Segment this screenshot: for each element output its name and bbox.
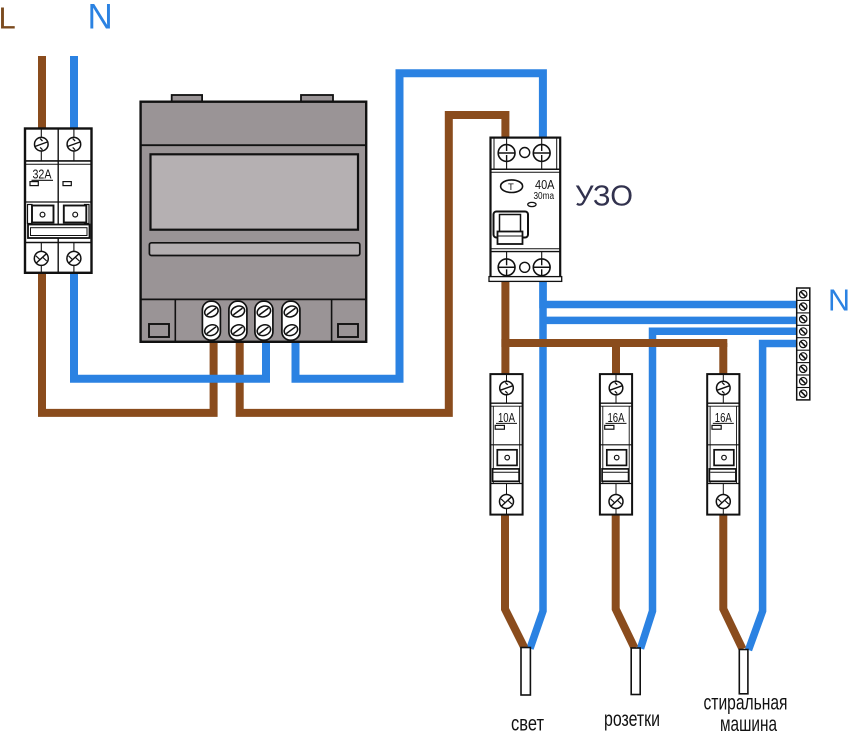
svg-text:машина: машина	[720, 713, 777, 735]
breaker SF2 16A	[600, 374, 632, 514]
wire L input brown	[38, 56, 46, 132]
breaker SF1 10A	[490, 374, 522, 514]
svg-text:30ma: 30ma	[534, 191, 555, 202]
breaker QF1 32A two-pole	[25, 129, 92, 273]
wire N busbar blue branch to sockets cable	[641, 331, 800, 648]
label washing machine	[704, 692, 788, 735]
label N busbar	[828, 284, 850, 318]
wire brown drop to breaker SF3	[719, 343, 727, 377]
svg-text:свет: свет	[511, 712, 544, 735]
wire brown distribution bus	[501, 339, 727, 347]
svg-text:10A: 10A	[498, 411, 515, 425]
breaker SF3 16A	[707, 374, 739, 514]
svg-text:40A: 40A	[535, 178, 555, 192]
electric meter	[141, 95, 367, 342]
RCD U1 40A 30ma	[489, 138, 562, 282]
wire meter terminal 2 brown to RCD top-left	[240, 115, 506, 413]
label УЗО	[575, 181, 633, 213]
svg-text:16A: 16A	[608, 411, 625, 425]
wire N input blue	[70, 56, 78, 132]
wire breaker SF1 brown to light cable	[505, 512, 525, 648]
svg-text:16A: 16A	[715, 411, 732, 425]
svg-text:32A: 32A	[33, 168, 53, 182]
wire QF1 bottom blue to meter terminal 3	[74, 270, 266, 379]
label N neutral input	[88, 0, 113, 36]
wire breaker SF2 brown to sockets cable	[616, 512, 635, 648]
cable to sockets	[631, 648, 640, 695]
wire breaker SF3 brown to washing machine cable	[723, 512, 742, 649]
svg-text:T: T	[508, 182, 514, 193]
svg-text:N: N	[88, 0, 113, 36]
wire RCD bottom brown down to breaker SF1	[501, 278, 509, 377]
cable to light	[521, 648, 530, 696]
label rozetki	[604, 708, 660, 731]
svg-text:розетки: розетки	[604, 708, 660, 731]
wire N busbar blue branch to light cable	[530, 278, 799, 649]
svg-text:N: N	[828, 284, 850, 318]
label L phase input	[0, 1, 16, 36]
wire QF1 bottom brown to meter terminal 1	[42, 270, 214, 413]
N busbar terminal block	[797, 288, 810, 400]
label svet	[511, 712, 544, 735]
wire RCD bottom blue to N busbar	[543, 278, 799, 305]
wire N busbar blue branch to washing machine cable	[749, 344, 800, 651]
wire meter terminal 4 blue to RCD top-right	[296, 73, 543, 379]
svg-text:стиральная: стиральная	[704, 692, 788, 715]
svg-text:УЗО: УЗО	[575, 181, 633, 213]
wire brown drop to breaker SF2	[612, 343, 620, 377]
cable to washing machine	[739, 650, 748, 694]
svg-text:L: L	[0, 1, 16, 36]
